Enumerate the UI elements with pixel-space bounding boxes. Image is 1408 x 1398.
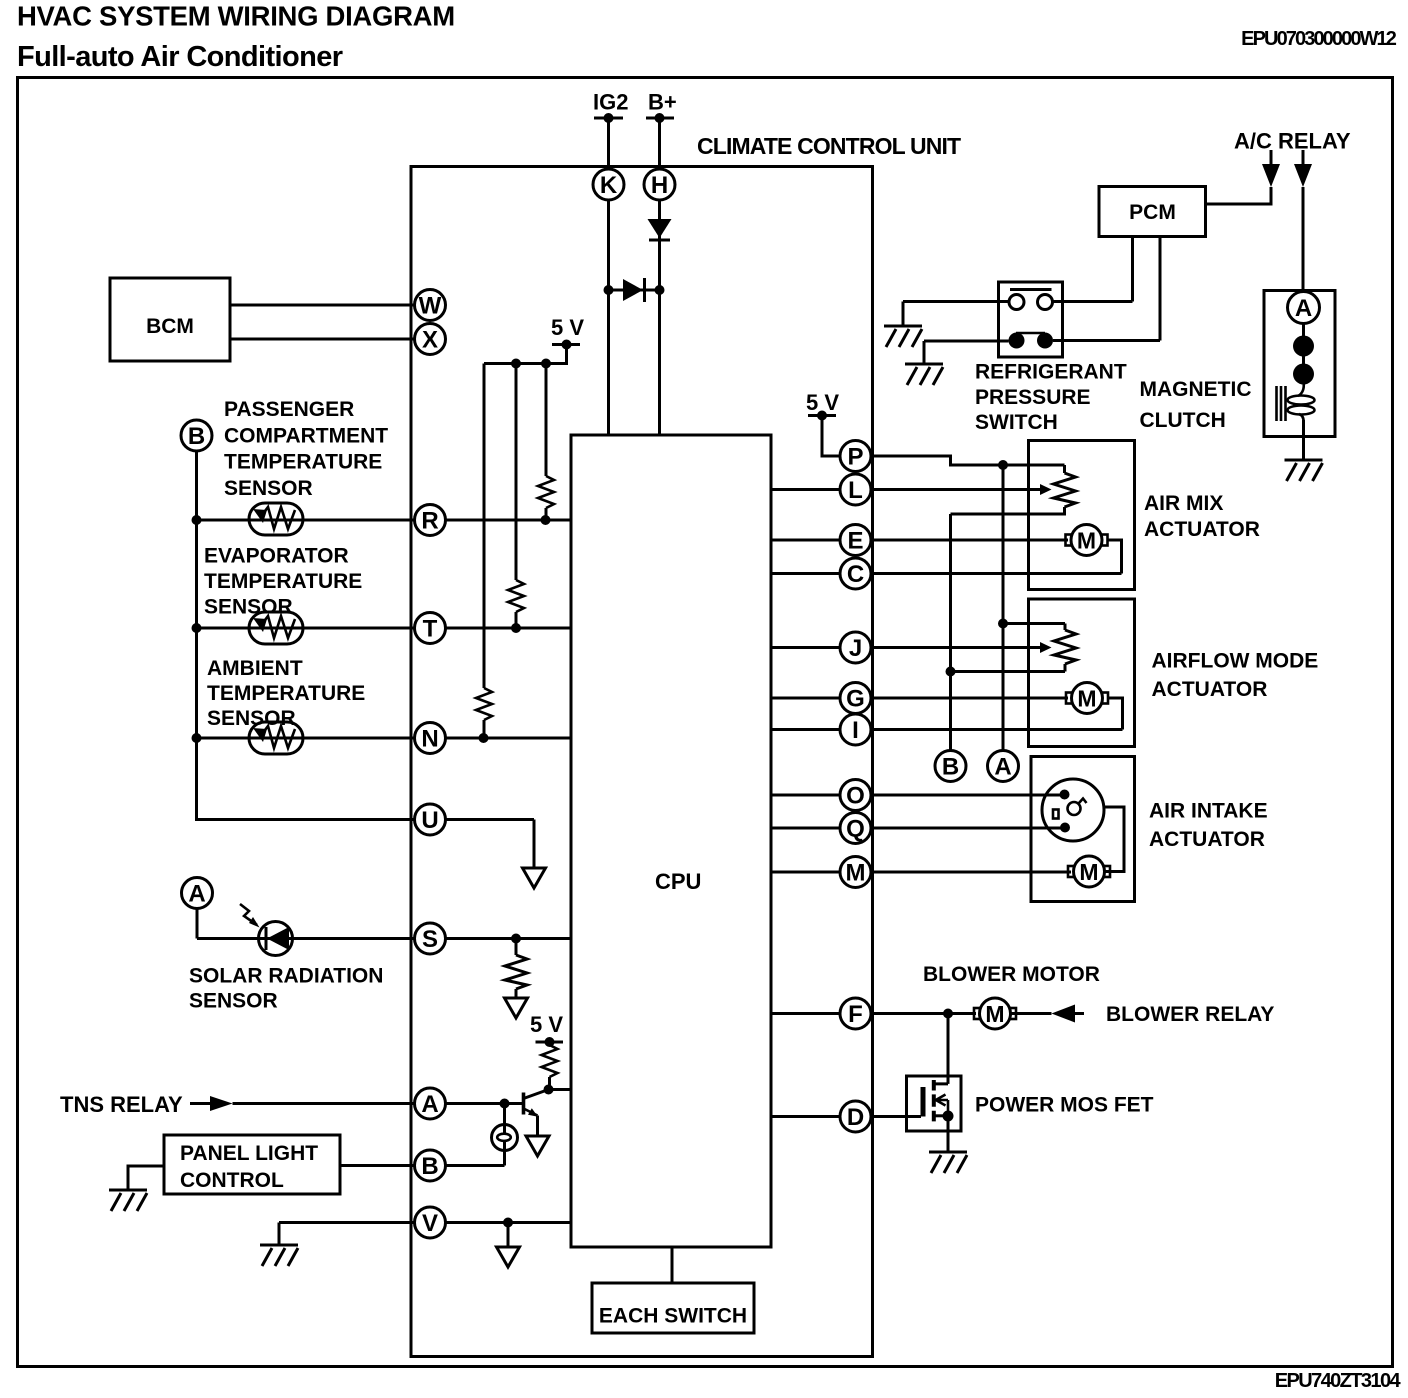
svg-text:EVAPORATOR: EVAPORATOR — [204, 545, 349, 568]
svg-text:A: A — [1295, 295, 1312, 322]
svg-text:SWITCH: SWITCH — [975, 411, 1058, 434]
svg-text:M: M — [846, 860, 866, 887]
svg-text:PASSENGER: PASSENGER — [224, 398, 354, 421]
svg-text:REFRIGERANT: REFRIGERANT — [975, 361, 1127, 384]
svg-text:COMPARTMENT: COMPARTMENT — [224, 425, 388, 448]
svg-text:O: O — [846, 783, 865, 810]
svg-text:MAGNETIC: MAGNETIC — [1140, 378, 1252, 401]
svg-text:H: H — [651, 172, 668, 199]
svg-text:P: P — [847, 444, 863, 471]
svg-text:PRESSURE: PRESSURE — [975, 386, 1091, 409]
svg-text:N: N — [421, 726, 438, 753]
svg-text:T: T — [423, 616, 438, 643]
svg-text:TEMPERATURE: TEMPERATURE — [204, 570, 362, 593]
svg-text:B: B — [421, 1153, 438, 1180]
svg-text:A: A — [994, 754, 1011, 781]
svg-text:AIR MIX: AIR MIX — [1144, 492, 1223, 515]
svg-text:Full-auto Air Conditioner: Full-auto Air Conditioner — [17, 41, 343, 73]
svg-text:ACTUATOR: ACTUATOR — [1144, 518, 1260, 541]
svg-text:V: V — [422, 1210, 438, 1237]
svg-text:G: G — [846, 686, 865, 713]
svg-text:AIRFLOW MODE: AIRFLOW MODE — [1152, 650, 1319, 673]
svg-text:B: B — [188, 423, 205, 450]
svg-text:B+: B+ — [648, 90, 677, 115]
svg-text:E: E — [847, 528, 863, 555]
svg-text:PANEL LIGHT: PANEL LIGHT — [180, 1142, 318, 1165]
svg-text:POWER MOS FET: POWER MOS FET — [975, 1094, 1154, 1117]
svg-text:IG2: IG2 — [593, 90, 628, 115]
svg-text:A: A — [421, 1091, 438, 1118]
svg-text:EACH SWITCH: EACH SWITCH — [599, 1305, 747, 1328]
svg-text:Q: Q — [846, 816, 865, 843]
svg-text:EPU070300000W12: EPU070300000W12 — [1241, 28, 1397, 50]
svg-text:HVAC SYSTEM WIRING DIAGRAM: HVAC SYSTEM WIRING DIAGRAM — [17, 1, 455, 32]
svg-text:L: L — [848, 477, 863, 504]
svg-text:BCM: BCM — [146, 315, 194, 338]
svg-text:D: D — [847, 1104, 864, 1131]
svg-text:CONTROL: CONTROL — [180, 1169, 284, 1192]
svg-text:AIR INTAKE: AIR INTAKE — [1149, 800, 1268, 823]
svg-text:A: A — [188, 881, 205, 908]
svg-text:B: B — [942, 754, 959, 781]
svg-text:PCM: PCM — [1129, 201, 1176, 224]
svg-text:ACTUATOR: ACTUATOR — [1149, 828, 1265, 851]
svg-text:SENSOR: SENSOR — [224, 477, 313, 500]
svg-text:AMBIENT: AMBIENT — [207, 657, 303, 680]
svg-text:I: I — [852, 717, 859, 744]
svg-text:CPU: CPU — [655, 869, 701, 894]
svg-text:SENSOR: SENSOR — [204, 596, 293, 619]
svg-text:SENSOR: SENSOR — [207, 707, 296, 730]
svg-text:X: X — [422, 327, 438, 354]
svg-text:TEMPERATURE: TEMPERATURE — [207, 682, 365, 705]
svg-text:BLOWER RELAY: BLOWER RELAY — [1106, 1003, 1274, 1026]
svg-text:F: F — [848, 1001, 863, 1028]
svg-text:ACTUATOR: ACTUATOR — [1152, 678, 1268, 701]
svg-text:W: W — [419, 293, 442, 320]
svg-text:S: S — [422, 926, 438, 953]
svg-text:5 V: 5 V — [530, 1012, 563, 1037]
svg-text:A/C RELAY: A/C RELAY — [1234, 129, 1351, 154]
svg-text:C: C — [847, 561, 864, 588]
svg-text:TEMPERATURE: TEMPERATURE — [224, 451, 382, 474]
svg-text:K: K — [600, 172, 618, 199]
svg-text:SOLAR RADIATION: SOLAR RADIATION — [189, 965, 383, 988]
svg-text:CLUTCH: CLUTCH — [1140, 409, 1226, 432]
svg-text:U: U — [421, 807, 438, 834]
svg-text:R: R — [421, 508, 438, 535]
svg-text:CLIMATE CONTROL UNIT: CLIMATE CONTROL UNIT — [697, 133, 961, 159]
svg-text:TNS RELAY: TNS RELAY — [60, 1092, 183, 1117]
svg-text:5 V: 5 V — [551, 315, 584, 340]
svg-text:SENSOR: SENSOR — [189, 990, 278, 1013]
svg-text:BLOWER MOTOR: BLOWER MOTOR — [923, 963, 1100, 986]
svg-text:EPU740ZT3104: EPU740ZT3104 — [1275, 1370, 1402, 1392]
svg-text:J: J — [849, 635, 862, 662]
